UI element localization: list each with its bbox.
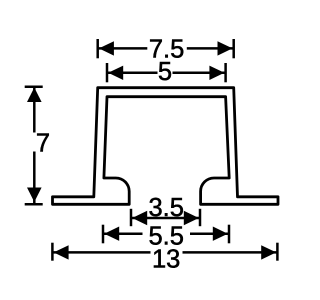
dim 7 top tick: [25, 86, 43, 89]
dim 13 left arrowhead: [54, 245, 69, 259]
dim 5 line left segment: [107, 72, 158, 75]
dim 5.5 line left segment: [103, 232, 143, 235]
svg-text:5: 5: [158, 58, 172, 86]
dim 5.5 right arrowhead: [213, 227, 228, 241]
dim 7.5 right tick: [232, 39, 235, 58]
dim 5 right arrowhead: [209, 66, 224, 80]
dimension 7.5 (outer top width): [98, 39, 234, 58]
dim 3.5 right arrowhead: [184, 211, 199, 225]
dim 13 right arrowhead: [261, 245, 276, 259]
dim 7.5 line left segment: [98, 47, 148, 50]
dim 3.5 left tick: [130, 209, 133, 226]
hat-profile cross-section outline: [53, 88, 279, 205]
dimension 3.5 (bottom opening width): [131, 209, 200, 226]
dimension 5 (inner top width): [107, 63, 226, 82]
dimension 13 (overall flange width): [52, 243, 277, 261]
dim 5.5 left arrowhead: [104, 227, 119, 241]
dim 5.5 right tick: [228, 225, 231, 244]
dim 7.5 left tick: [96, 39, 99, 58]
dim 13 line right segment: [183, 251, 278, 254]
dimension 7 (height, vertical at left): [25, 87, 43, 205]
dim 13 line left segment: [52, 251, 150, 254]
dim 13 right tick: [276, 243, 279, 261]
dim 7.5 left arrowhead: [99, 41, 114, 55]
svg-text:3.5: 3.5: [148, 194, 183, 222]
dim 5 left tick: [106, 63, 109, 82]
dim 7.5 line right segment: [187, 47, 234, 50]
dim 7 down arrowhead: [27, 188, 42, 203]
dim 13 left tick: [51, 243, 54, 261]
dim 5 line right segment: [173, 72, 226, 75]
dim 5 right tick: [224, 63, 227, 82]
dimension 5.5 (cavity width at ledge): [103, 225, 229, 244]
dim 3.5 left arrowhead: [132, 211, 147, 225]
dim 3.5 right tick: [199, 209, 202, 226]
dim 7.5 right arrowhead: [218, 41, 233, 55]
dim 5.5 line right segment: [190, 232, 229, 235]
dim 7 line upper segment: [33, 87, 36, 133]
dim 3.5 line: [131, 217, 200, 220]
dim 7 bottom tick: [25, 203, 43, 206]
dim 5 left arrowhead: [108, 66, 123, 80]
dim 5.5 left tick: [102, 225, 105, 244]
dim 7 line lower segment: [33, 152, 36, 205]
dim 7 up arrowhead: [27, 88, 42, 103]
svg-text:13: 13: [152, 245, 180, 273]
svg-text:7: 7: [36, 130, 50, 158]
